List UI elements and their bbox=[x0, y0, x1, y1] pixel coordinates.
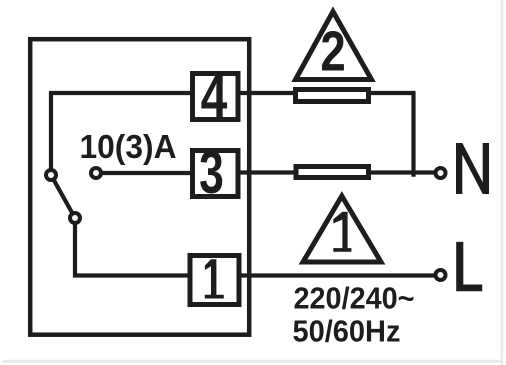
svg-text:4: 4 bbox=[201, 63, 228, 130]
svg-text:10(3)A: 10(3)A bbox=[80, 128, 177, 165]
svg-text:220/240~: 220/240~ bbox=[294, 281, 415, 316]
svg-text:3: 3 bbox=[199, 140, 224, 207]
svg-text:2: 2 bbox=[320, 18, 345, 82]
svg-text:50/60Hz: 50/60Hz bbox=[293, 314, 401, 349]
